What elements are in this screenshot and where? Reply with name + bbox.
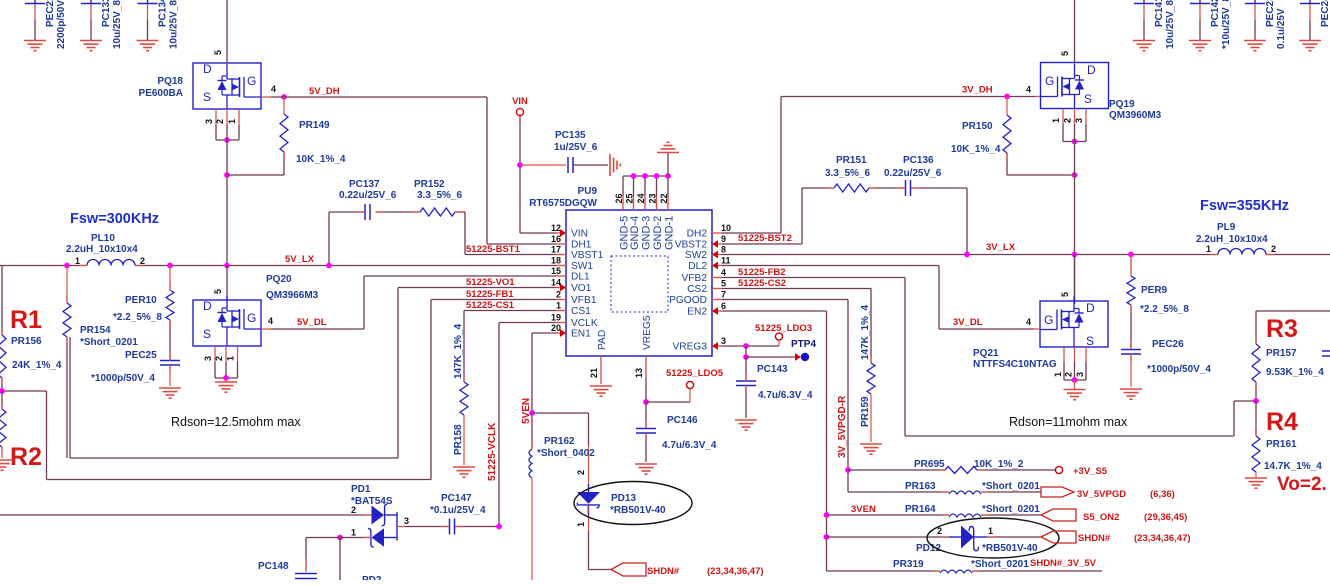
IC top pins 26 25 24 23 22 GND bbox=[614, 176, 676, 250]
ground below PEC25 bbox=[159, 388, 181, 398]
wire net 3V_5VPGD-R bbox=[722, 300, 848, 493]
capacitor PC137 bbox=[339, 179, 397, 220]
junction PGOOD rows bbox=[845, 467, 851, 473]
label Vo bbox=[1277, 474, 1327, 495]
ground below PEC26 bbox=[1120, 389, 1142, 399]
svg-text:3V_5VPGD: 3V_5VPGD bbox=[1077, 489, 1126, 500]
svg-text:*Short_0402: *Short_0402 bbox=[537, 448, 595, 459]
resistor PER9 bbox=[1127, 255, 1189, 350]
diode PD1 BAT54S bbox=[351, 484, 406, 547]
wire net 51225-VCLK bbox=[499, 323, 556, 527]
capacitor PC133 with ground bbox=[80, 0, 123, 51]
junction VREG3 a bbox=[743, 343, 749, 349]
label net 5V_DH bbox=[309, 86, 340, 97]
svg-text:*Short_0201: *Short_0201 bbox=[982, 504, 1040, 515]
wire net 51225-FB1 bbox=[2, 300, 556, 480]
svg-text:51225_LDO5: 51225_LDO5 bbox=[666, 368, 724, 379]
svg-text:*2.2_5%_8: *2.2_5%_8 bbox=[1140, 304, 1189, 315]
label PQ21 NTTFS4C10NTAG bbox=[973, 348, 1057, 370]
svg-text:PQ20: PQ20 bbox=[266, 274, 292, 285]
svg-text:GND-4: GND-4 bbox=[629, 216, 641, 250]
svg-text:*RB501V-40: *RB501V-40 bbox=[982, 543, 1038, 554]
svg-text:21: 21 bbox=[589, 368, 599, 378]
junction PQ19 source bbox=[1072, 139, 1078, 145]
svg-text:4: 4 bbox=[721, 268, 726, 278]
ground below R4 bbox=[1245, 478, 1267, 488]
label net 51225-BST1 bbox=[466, 244, 521, 255]
ground below PR158 bbox=[453, 467, 475, 477]
label net SHDN#_3V_5V bbox=[1030, 558, 1097, 569]
svg-text:PR152: PR152 bbox=[414, 179, 445, 190]
svg-text:1: 1 bbox=[227, 119, 237, 124]
svg-text:PR156: PR156 bbox=[11, 336, 42, 347]
svg-text:14.7K_1%_4: 14.7K_1%_4 bbox=[1264, 461, 1322, 472]
svg-text:19: 19 bbox=[551, 313, 561, 323]
svg-text:NTTFS4C10NTAG: NTTFS4C10NTAG bbox=[973, 359, 1057, 370]
port 51225_LDO5 bbox=[646, 368, 724, 402]
svg-text:PER10: PER10 bbox=[125, 295, 157, 306]
node 5V_DH junction bbox=[281, 94, 287, 100]
svg-text:PC134: PC134 bbox=[158, 0, 169, 27]
resistor PR695 row bbox=[848, 459, 1055, 474]
wire 5VEN to PD13 bbox=[532, 413, 589, 484]
svg-text:4: 4 bbox=[268, 316, 273, 326]
wire PD1 pin2 rail bbox=[0, 505, 372, 515]
transistor Q PQ21 bbox=[1040, 297, 1108, 349]
svg-text:23: 23 bbox=[648, 193, 658, 203]
pins 1 2 3 of PQ19 bbox=[1051, 109, 1086, 142]
svg-text:6: 6 bbox=[721, 301, 726, 311]
capacitor PEC25 bbox=[91, 350, 180, 386]
svg-text:PER9: PER9 bbox=[1141, 285, 1168, 296]
svg-text:51225-FB1: 51225-FB1 bbox=[466, 289, 514, 300]
label Fsw=355KHz bbox=[1200, 198, 1289, 214]
svg-text:51225-BST2: 51225-BST2 bbox=[738, 233, 792, 244]
svg-text:PQ18: PQ18 bbox=[157, 76, 183, 87]
label net 5V_LX bbox=[285, 254, 315, 265]
svg-text:PC142: PC142 bbox=[1210, 0, 1221, 27]
junctions on GND bus bbox=[631, 173, 671, 179]
label net 51225-FB1 bbox=[466, 289, 514, 300]
svg-text:5V_DL: 5V_DL bbox=[297, 317, 327, 328]
svg-text:D: D bbox=[1087, 63, 1096, 77]
svg-text:GND-2: GND-2 bbox=[652, 216, 664, 250]
label net 51225-FB2 bbox=[738, 267, 786, 278]
svg-text:SW1: SW1 bbox=[571, 261, 593, 272]
svg-text:11: 11 bbox=[721, 256, 731, 266]
svg-text:PEC24: PEC24 bbox=[1320, 0, 1330, 27]
svg-text:*RB501V-40: *RB501V-40 bbox=[610, 505, 666, 516]
svg-text:16: 16 bbox=[551, 234, 561, 244]
svg-text:VIN: VIN bbox=[512, 96, 528, 107]
svg-text:2: 2 bbox=[556, 290, 561, 300]
ground below PQ21 bbox=[1064, 380, 1086, 400]
svg-text:2: 2 bbox=[576, 470, 586, 475]
svg-text:3: 3 bbox=[1075, 372, 1085, 377]
svg-text:15: 15 bbox=[551, 266, 561, 276]
svg-text:2: 2 bbox=[214, 356, 224, 361]
pins 1 2 3 of PQ20 bbox=[203, 346, 238, 378]
wire PQ18 drain to VIN rail bbox=[213, 0, 227, 63]
svg-text:147K_1%_4: 147K_1%_4 bbox=[860, 305, 871, 360]
svg-text:2: 2 bbox=[1063, 118, 1073, 123]
label PQ20 QM3966M3 bbox=[266, 274, 319, 301]
op-amp U PU9 body bbox=[566, 210, 712, 356]
svg-text:PR164: PR164 bbox=[905, 504, 936, 515]
resistor PR163 short row bbox=[848, 481, 1041, 494]
junction 3VEN row3 bbox=[824, 512, 830, 518]
svg-text:VIN: VIN bbox=[571, 229, 588, 240]
svg-text:4.7u/6.3V_4: 4.7u/6.3V_4 bbox=[758, 390, 813, 401]
wire PR149 bottom to source node bbox=[227, 152, 284, 175]
svg-text:10u/25V_8_: 10u/25V_8_ bbox=[112, 0, 123, 49]
svg-text:22: 22 bbox=[659, 193, 669, 203]
svg-text:EN1: EN1 bbox=[571, 329, 591, 340]
label net 51225-CS2 bbox=[738, 278, 786, 289]
svg-text:D: D bbox=[203, 62, 212, 76]
wire R1 top bbox=[1, 266, 3, 336]
svg-text:+3V_S5: +3V_S5 bbox=[1073, 466, 1108, 477]
resistor R2 bbox=[0, 391, 42, 471]
label net 51225-BST2 bbox=[738, 233, 792, 244]
inductor PL10 bbox=[66, 233, 145, 266]
diode PD13 RB501V bbox=[576, 470, 600, 570]
label net 51225-VO1 bbox=[466, 277, 515, 288]
svg-text:RT6575DGQW: RT6575DGQW bbox=[529, 198, 597, 209]
IC pin 21 PAD bbox=[589, 330, 608, 384]
svg-text:EN2: EN2 bbox=[687, 307, 707, 318]
offpage connector 3V_5VPGD bbox=[1041, 487, 1175, 500]
svg-text:*0.1u/25V_4: *0.1u/25V_4 bbox=[430, 505, 486, 516]
svg-text:PAD: PAD bbox=[597, 330, 608, 350]
svg-text:(29,36,45): (29,36,45) bbox=[1144, 512, 1187, 523]
label PD13 RB501V-40 bbox=[610, 493, 666, 516]
capacitor PC134 with ground bbox=[137, 0, 180, 51]
label net 5VEN bbox=[521, 398, 532, 424]
svg-text:PEC26: PEC26 bbox=[1152, 339, 1184, 350]
junction 3VEN row4 bbox=[824, 534, 830, 540]
svg-text:G: G bbox=[1044, 313, 1053, 327]
svg-text:G: G bbox=[1045, 74, 1054, 88]
resistor R3 PR157 bbox=[1252, 315, 1324, 401]
svg-text:DH1: DH1 bbox=[571, 240, 592, 251]
label PD2 bbox=[362, 575, 382, 585]
wire net 51225-FB2 bbox=[722, 278, 1256, 437]
capacitor PC146 bbox=[636, 402, 717, 462]
junction R3 R4 feedback bbox=[1253, 398, 1259, 404]
pins 1 2 3 of PQ21 bbox=[1053, 347, 1086, 380]
svg-text:3: 3 bbox=[204, 119, 214, 124]
inductor PL9 bbox=[1196, 222, 1276, 255]
capacitor PC135 bbox=[554, 130, 598, 173]
wire net 51225-BST2 RC bbox=[722, 188, 967, 255]
svg-text:Fsw=300KHz: Fsw=300KHz bbox=[70, 211, 159, 227]
svg-text:CS1: CS1 bbox=[571, 306, 591, 317]
svg-text:PC147: PC147 bbox=[441, 493, 472, 504]
junction VREG3 b bbox=[743, 354, 749, 360]
svg-text:4.7u/6.3V_4: 4.7u/6.3V_4 bbox=[662, 440, 717, 451]
label net 51225-VCLK bbox=[487, 422, 498, 481]
svg-text:S: S bbox=[203, 327, 211, 341]
svg-text:S5_ON2: S5_ON2 bbox=[1083, 512, 1119, 523]
pin 4 of PQ19 bbox=[1026, 85, 1031, 95]
svg-text:PQ19: PQ19 bbox=[1109, 99, 1135, 110]
label net 3V_DL bbox=[953, 317, 983, 328]
wire VIN to pin 12 bbox=[520, 116, 556, 233]
svg-text:10K_1%_4: 10K_1%_4 bbox=[296, 154, 346, 165]
resistor PR159 147K bbox=[860, 305, 875, 442]
svg-text:1: 1 bbox=[576, 522, 586, 527]
svg-text:5: 5 bbox=[213, 50, 223, 55]
resistor PR151 bbox=[825, 155, 870, 192]
capacitor PEC22 with ground bbox=[24, 0, 67, 51]
label net 5V_DL bbox=[297, 317, 327, 328]
svg-text:PU9: PU9 bbox=[578, 186, 598, 197]
svg-text:R2: R2 bbox=[10, 443, 42, 471]
svg-text:3: 3 bbox=[404, 516, 409, 526]
annotation ellipse PD13 bbox=[574, 482, 692, 525]
capacitor plate right edge bbox=[1322, 351, 1330, 356]
svg-text:CS2: CS2 bbox=[687, 284, 707, 295]
svg-text:51225-CS2: 51225-CS2 bbox=[738, 278, 786, 289]
wire net 51225-BST1 bbox=[465, 254, 556, 256]
resistor PR319 short row bbox=[827, 559, 1103, 573]
svg-text:5: 5 bbox=[213, 289, 223, 294]
svg-text:PR158: PR158 bbox=[453, 424, 464, 455]
svg-text:PL9: PL9 bbox=[1217, 222, 1236, 233]
svg-text:PR149: PR149 bbox=[299, 120, 330, 131]
wire PQ19 source node bbox=[1074, 124, 1076, 304]
svg-text:1: 1 bbox=[226, 356, 236, 361]
svg-text:12: 12 bbox=[551, 223, 561, 233]
wire PC135 to ground bbox=[574, 164, 609, 166]
svg-text:24K_1%_4: 24K_1%_4 bbox=[12, 360, 62, 371]
offpage connector S5_ON2 bbox=[1041, 509, 1187, 523]
svg-text:10u/25V_8_: 10u/25V_8_ bbox=[169, 0, 180, 49]
svg-text:PEC25: PEC25 bbox=[125, 350, 157, 361]
junction PD1 pin1 bbox=[337, 535, 343, 541]
svg-text:R3: R3 bbox=[1266, 315, 1298, 343]
svg-text:PR163: PR163 bbox=[905, 481, 936, 492]
junction LX2 BST2 bbox=[964, 252, 970, 258]
junction PQ21 source bbox=[1072, 377, 1078, 383]
junction R1 R2 bbox=[0, 388, 5, 394]
junction LX2 FETs bbox=[1072, 252, 1078, 258]
wire net 51225-VO1 bbox=[70, 288, 556, 459]
svg-text:1: 1 bbox=[988, 526, 993, 536]
capacitor PC142 with ground bbox=[1189, 0, 1232, 51]
svg-text:3V_DH: 3V_DH bbox=[962, 85, 993, 96]
svg-text:2.2uH_10x10x4: 2.2uH_10x10x4 bbox=[66, 244, 138, 255]
junction PR149 bottom tie bbox=[224, 172, 230, 178]
svg-text:G: G bbox=[247, 311, 256, 325]
capacitor PEC24 with ground bbox=[1299, 0, 1330, 51]
port +3V_S5 bbox=[1055, 466, 1107, 477]
svg-text:5: 5 bbox=[1060, 51, 1070, 56]
svg-text:*BAT54S: *BAT54S bbox=[351, 496, 393, 507]
svg-text:*2.2_5%_8: *2.2_5%_8 bbox=[113, 312, 162, 323]
svg-text:3V_LX: 3V_LX bbox=[986, 242, 1016, 253]
wire net 3V_DH bbox=[722, 97, 1041, 234]
ground below PQ20 bbox=[215, 378, 237, 392]
svg-text:4: 4 bbox=[1026, 317, 1031, 327]
svg-text:G: G bbox=[247, 74, 256, 88]
port VIN bbox=[512, 96, 528, 116]
resistor PR150 bbox=[951, 97, 1011, 176]
svg-text:PR695: PR695 bbox=[914, 459, 945, 470]
junction LX BST1 bbox=[326, 263, 332, 269]
svg-text:PC136: PC136 bbox=[903, 155, 934, 166]
resistor R1 PR156 bbox=[0, 306, 62, 391]
svg-text:9: 9 bbox=[721, 234, 726, 244]
svg-text:3: 3 bbox=[203, 356, 213, 361]
IC pin 13 VREG5 bbox=[634, 315, 653, 402]
svg-text:PGOOD: PGOOD bbox=[669, 295, 707, 306]
svg-text:2.2uH_10x10x4: 2.2uH_10x10x4 bbox=[1196, 234, 1268, 245]
wire GND bus bbox=[623, 175, 668, 177]
svg-text:10K_1%_2: 10K_1%_2 bbox=[974, 459, 1024, 470]
capacitor PC143 bbox=[736, 357, 813, 418]
svg-text:PC137: PC137 bbox=[349, 179, 380, 190]
ground below PR159 bbox=[860, 444, 882, 454]
svg-text:1: 1 bbox=[1051, 118, 1061, 123]
capacitor PC141 with ground bbox=[1133, 0, 1176, 51]
svg-text:2: 2 bbox=[1271, 244, 1276, 254]
wire PR150 to source bbox=[1007, 174, 1075, 176]
wire row SHDN# bbox=[827, 536, 1042, 538]
test point PTP4 bbox=[746, 339, 816, 361]
svg-text:PL10: PL10 bbox=[91, 233, 115, 244]
wire PQ19 drain bbox=[1060, 0, 1075, 63]
svg-text:DL2: DL2 bbox=[688, 261, 707, 272]
wire VREG3 bbox=[722, 345, 779, 347]
svg-text:Rdson=11mohm max: Rdson=11mohm max bbox=[1009, 415, 1128, 429]
svg-text:5V_DH: 5V_DH bbox=[309, 86, 340, 97]
svg-text:14: 14 bbox=[551, 278, 561, 288]
svg-text:10K_1%_4: 10K_1%_4 bbox=[951, 144, 1001, 155]
svg-text:SHDN#_3V_5V: SHDN#_3V_5V bbox=[1030, 558, 1097, 569]
svg-text:0.1u/25V: 0.1u/25V bbox=[1276, 8, 1287, 49]
junction VREG5 node bbox=[643, 399, 649, 405]
resistor PR154 short bbox=[63, 266, 138, 459]
wire net 51225-CS2 bbox=[722, 289, 871, 364]
svg-text:S: S bbox=[1084, 92, 1092, 106]
svg-text:SW2: SW2 bbox=[685, 250, 707, 261]
svg-text:PR162: PR162 bbox=[544, 436, 575, 447]
svg-text:3: 3 bbox=[721, 336, 726, 346]
svg-text:PQ21: PQ21 bbox=[973, 348, 999, 359]
svg-text:8: 8 bbox=[721, 245, 726, 255]
svg-text:51225-FB2: 51225-FB2 bbox=[738, 267, 786, 278]
svg-text:PD13: PD13 bbox=[611, 493, 636, 504]
svg-text:20: 20 bbox=[551, 323, 561, 333]
transistor Q PQ20 bbox=[193, 296, 261, 346]
resistor PER10 bbox=[113, 266, 174, 361]
capacitor PC136 bbox=[884, 155, 942, 196]
svg-text:PTP4: PTP4 bbox=[791, 339, 816, 350]
label net 3VEN bbox=[851, 504, 876, 515]
svg-text:VCLK: VCLK bbox=[571, 318, 598, 329]
capacitor PEC26 bbox=[1121, 339, 1211, 387]
svg-text:1: 1 bbox=[556, 301, 561, 311]
svg-text:PR150: PR150 bbox=[962, 121, 993, 132]
svg-text:51225-VO1: 51225-VO1 bbox=[466, 277, 515, 288]
label net 3V_DH bbox=[962, 85, 993, 96]
svg-text:*Short_0201: *Short_0201 bbox=[982, 481, 1040, 492]
wire PQ20 drain bbox=[213, 266, 227, 301]
wire BST1 RC branch bbox=[329, 212, 465, 266]
svg-text:VO1: VO1 bbox=[571, 283, 592, 294]
svg-text:VFB2: VFB2 bbox=[682, 273, 708, 284]
capacitor PEC23 with ground bbox=[1244, 0, 1287, 51]
svg-text:3.3_5%_6: 3.3_5%_6 bbox=[417, 190, 462, 201]
svg-text:51225-CS1: 51225-CS1 bbox=[466, 300, 515, 311]
svg-text:3V_DL: 3V_DL bbox=[953, 317, 983, 328]
svg-text:5: 5 bbox=[721, 279, 726, 289]
port 51225_LDO3 bbox=[755, 323, 812, 346]
svg-text:3V_5VPGD-R: 3V_5VPGD-R bbox=[837, 395, 848, 458]
svg-text:3VEN: 3VEN bbox=[851, 504, 876, 515]
svg-text:51225-BST1: 51225-BST1 bbox=[466, 244, 521, 255]
transistor Q PQ18 bbox=[193, 62, 261, 109]
svg-text:PC141: PC141 bbox=[1154, 0, 1165, 27]
junction LX snubber bbox=[167, 263, 173, 269]
annotation ellipse PD12 bbox=[927, 518, 1059, 558]
wire net 51225-CS1 bbox=[464, 311, 556, 383]
label Rdson ch1 bbox=[171, 415, 301, 429]
wire to PC148 bbox=[305, 538, 307, 573]
ground below PC143 bbox=[735, 420, 757, 430]
wire PD1 pin3 to VCLK bbox=[404, 516, 450, 527]
svg-text:Rdson=12.5mohm max: Rdson=12.5mohm max bbox=[171, 415, 301, 429]
svg-text:5V_LX: 5V_LX bbox=[285, 254, 315, 265]
svg-text:PR161: PR161 bbox=[1266, 439, 1297, 450]
svg-text:VFB1: VFB1 bbox=[571, 295, 597, 306]
svg-text:VBST2: VBST2 bbox=[675, 240, 708, 251]
label PQ18 PE600BA bbox=[139, 76, 184, 99]
svg-text:1: 1 bbox=[1053, 372, 1063, 377]
svg-text:PR154: PR154 bbox=[80, 325, 111, 336]
svg-text:DL1: DL1 bbox=[571, 272, 590, 283]
svg-text:4: 4 bbox=[1026, 85, 1031, 95]
resistor PR164 short row bbox=[827, 504, 1042, 517]
svg-text:PE600BA: PE600BA bbox=[139, 88, 183, 99]
svg-text:3: 3 bbox=[1074, 118, 1084, 123]
svg-text:(23,34,36,47): (23,34,36,47) bbox=[707, 566, 764, 577]
svg-text:0.22u/25V_6: 0.22u/25V_6 bbox=[339, 190, 397, 201]
wire net 5V_DH bbox=[271, 97, 556, 244]
ground above GND bus (inverted) bbox=[657, 142, 679, 176]
svg-text:Fsw=355KHz: Fsw=355KHz bbox=[1200, 198, 1289, 214]
svg-text:GND-1: GND-1 bbox=[664, 216, 676, 250]
svg-text:*1000p/50V_4: *1000p/50V_4 bbox=[91, 373, 155, 384]
IC left pins 12 16 17 18 15 14 2 1 19 20 bbox=[551, 223, 604, 340]
svg-text:17: 17 bbox=[551, 245, 561, 255]
svg-text:R4: R4 bbox=[1266, 408, 1298, 436]
ground below PC146 bbox=[635, 464, 657, 474]
svg-text:VREG5: VREG5 bbox=[642, 315, 653, 350]
svg-text:S: S bbox=[1086, 334, 1094, 348]
wire VIN to PC135 bbox=[520, 164, 566, 166]
svg-text:3.3_5%_6: 3.3_5%_6 bbox=[825, 168, 870, 179]
svg-text:PR157: PR157 bbox=[1266, 348, 1297, 359]
svg-text:PR151: PR151 bbox=[836, 155, 867, 166]
svg-text:4: 4 bbox=[271, 84, 276, 94]
resistor PR162 short bbox=[529, 436, 595, 580]
svg-text:24: 24 bbox=[636, 193, 646, 203]
pins 1 2 3 of PQ18 bbox=[204, 109, 239, 140]
wire net 5V_LX bbox=[0, 265, 556, 267]
